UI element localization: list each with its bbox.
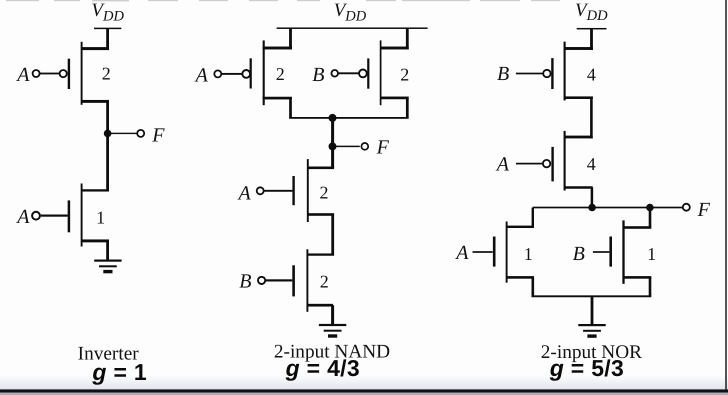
NMOS M10 (NOR pull-down B, size 1) [609, 220, 651, 283]
NMOS M6 (NAND pull-down B, size 2) [292, 249, 334, 311]
svg-text:4: 4 [587, 64, 596, 84]
svg-text:2: 2 [276, 64, 285, 84]
svg-text:2: 2 [320, 183, 329, 203]
input A terminal (top) [33, 70, 40, 77]
wire input B to M6 gate [266, 279, 292, 281]
svg-text:B: B [312, 64, 324, 86]
PMOS M1 gate bubble [60, 70, 67, 77]
junction PMOS chain to bus [588, 204, 596, 212]
svg-text:A: A [237, 182, 252, 204]
wire node to F terminal [108, 133, 138, 134]
wire M4 drain to output bus [406, 98, 409, 118]
wire input A to M2 gate [41, 215, 68, 217]
VDD rail (NAND) [277, 27, 428, 29]
wire input B to M10 gate [593, 251, 609, 253]
output F terminal (inverter) [137, 130, 144, 137]
wire input A to M5 gate [264, 190, 293, 192]
NMOS M5 (NAND pull-down A, size 2) [292, 159, 334, 222]
svg-text:F: F [151, 124, 165, 146]
PMOS M4 (NAND pull-up B, size 2) [367, 40, 409, 105]
svg-text:B: B [239, 271, 251, 293]
input A terminal (bottom) [32, 212, 40, 220]
svg-text:1: 1 [96, 207, 105, 227]
ground symbol (inverter) [94, 260, 121, 274]
wire input A to M1 gate [40, 73, 60, 75]
wire M9 source to bottom bus [532, 277, 535, 296]
wire VDD to PMOS M4 source [406, 28, 409, 49]
svg-text:4: 4 [587, 154, 596, 174]
svg-text:1: 1 [647, 244, 656, 264]
wire M8 drain to output bus [591, 188, 594, 208]
PMOS M8 (NOR pull-up A, size 4) [551, 131, 592, 191]
wire VDD to PMOS M1 source [106, 28, 109, 50]
output F terminal (NOR) [683, 204, 690, 211]
PMOS M3 gate bubble [242, 70, 250, 78]
svg-text:F: F [376, 136, 390, 158]
input A terminal (NAND) [214, 70, 221, 77]
svg-text:A: A [15, 64, 30, 86]
PMOS M7 gate bubble [543, 70, 550, 77]
wire input B to M7 gate [516, 73, 543, 75]
wire input A to M9 gate [473, 251, 493, 253]
NMOS M9 (NOR pull-down A, size 1) [493, 222, 534, 283]
junction NMOS M10 drain to bus [646, 204, 654, 212]
wire input B to M4 gate [338, 72, 359, 74]
top edge cropped text remnants [6, 0, 560, 1]
wire output bus to NMOS M5 drain [331, 118, 334, 168]
PMOS M7 (NOR pull-up B, size 4) [551, 42, 593, 101]
NMOS M2 (inverter pull-down, size 1) [68, 184, 109, 247]
PMOS M4 gate bubble [359, 70, 367, 78]
wire VDD to PMOS M7 source [590, 29, 593, 50]
svg-text:A: A [15, 206, 30, 228]
VDD rail (inverter) [94, 28, 121, 30]
wire M1 drain to output node [106, 101, 109, 190]
wire node to F terminal (NAND) [333, 146, 360, 148]
input A terminal (NAND NMOS) [257, 187, 264, 194]
output bus (NAND) [289, 117, 408, 119]
svg-text:B: B [497, 63, 509, 85]
PMOS M1 (inverter pull-up, size 2) [68, 42, 109, 105]
right frame line [725, 0, 727, 389]
PMOS M8 gate bubble [543, 160, 550, 167]
svg-text:g = 1: g = 1 [91, 359, 147, 385]
input B terminal (NAND NMOS) [258, 277, 265, 284]
wire M2 source to ground [106, 241, 109, 261]
output F terminal (NAND) [361, 143, 368, 150]
svg-text:VDD: VDD [334, 0, 367, 24]
wire bus to NMOS M10 drain [649, 208, 652, 228]
wire M7 drain to M8 source [590, 98, 593, 139]
wire M10 source to bottom bus [649, 277, 652, 296]
svg-text:B: B [573, 243, 585, 265]
svg-text:2: 2 [320, 272, 329, 292]
wire M5 source to M6 drain [331, 215, 334, 255]
svg-text:A: A [194, 64, 209, 86]
wire bus to NMOS M9 drain [532, 208, 534, 227]
wire input A to M3 gate [221, 73, 242, 75]
svg-text:VDD: VDD [91, 0, 124, 24]
PMOS M3 (NAND pull-up A, size 2) [250, 40, 292, 105]
wire M3 drain to output bus [289, 98, 292, 118]
input B terminal (NAND) [331, 70, 338, 77]
wire input A to M8 gate [516, 163, 543, 165]
svg-text:A: A [495, 153, 510, 175]
output node junction (inverter) [104, 130, 112, 138]
junction pull-up bus to output [329, 114, 337, 122]
svg-text:2: 2 [400, 64, 409, 84]
svg-text:1: 1 [524, 244, 533, 264]
ground symbol (NOR) [578, 324, 605, 338]
svg-text:2: 2 [102, 64, 111, 84]
wire bottom bus to ground [591, 296, 594, 325]
bottom dark bar [0, 389, 728, 392]
svg-text:A: A [454, 242, 469, 264]
bottom bus (NOR sources) [532, 295, 652, 297]
output bus (NOR) [533, 207, 685, 209]
wire VDD to PMOS M3 source [289, 28, 292, 49]
svg-text:g = 4/3: g = 4/3 [285, 355, 360, 381]
output node junction (NAND) [329, 142, 337, 150]
ground symbol (NAND) [319, 324, 346, 338]
VDD rail (NOR) [577, 28, 607, 30]
wire M6 source to ground [331, 305, 334, 325]
svg-text:VDD: VDD [575, 0, 608, 24]
svg-text:F: F [697, 199, 711, 221]
svg-text:g = 5/3: g = 5/3 [549, 355, 624, 381]
area below bottom bar [0, 393, 728, 395]
